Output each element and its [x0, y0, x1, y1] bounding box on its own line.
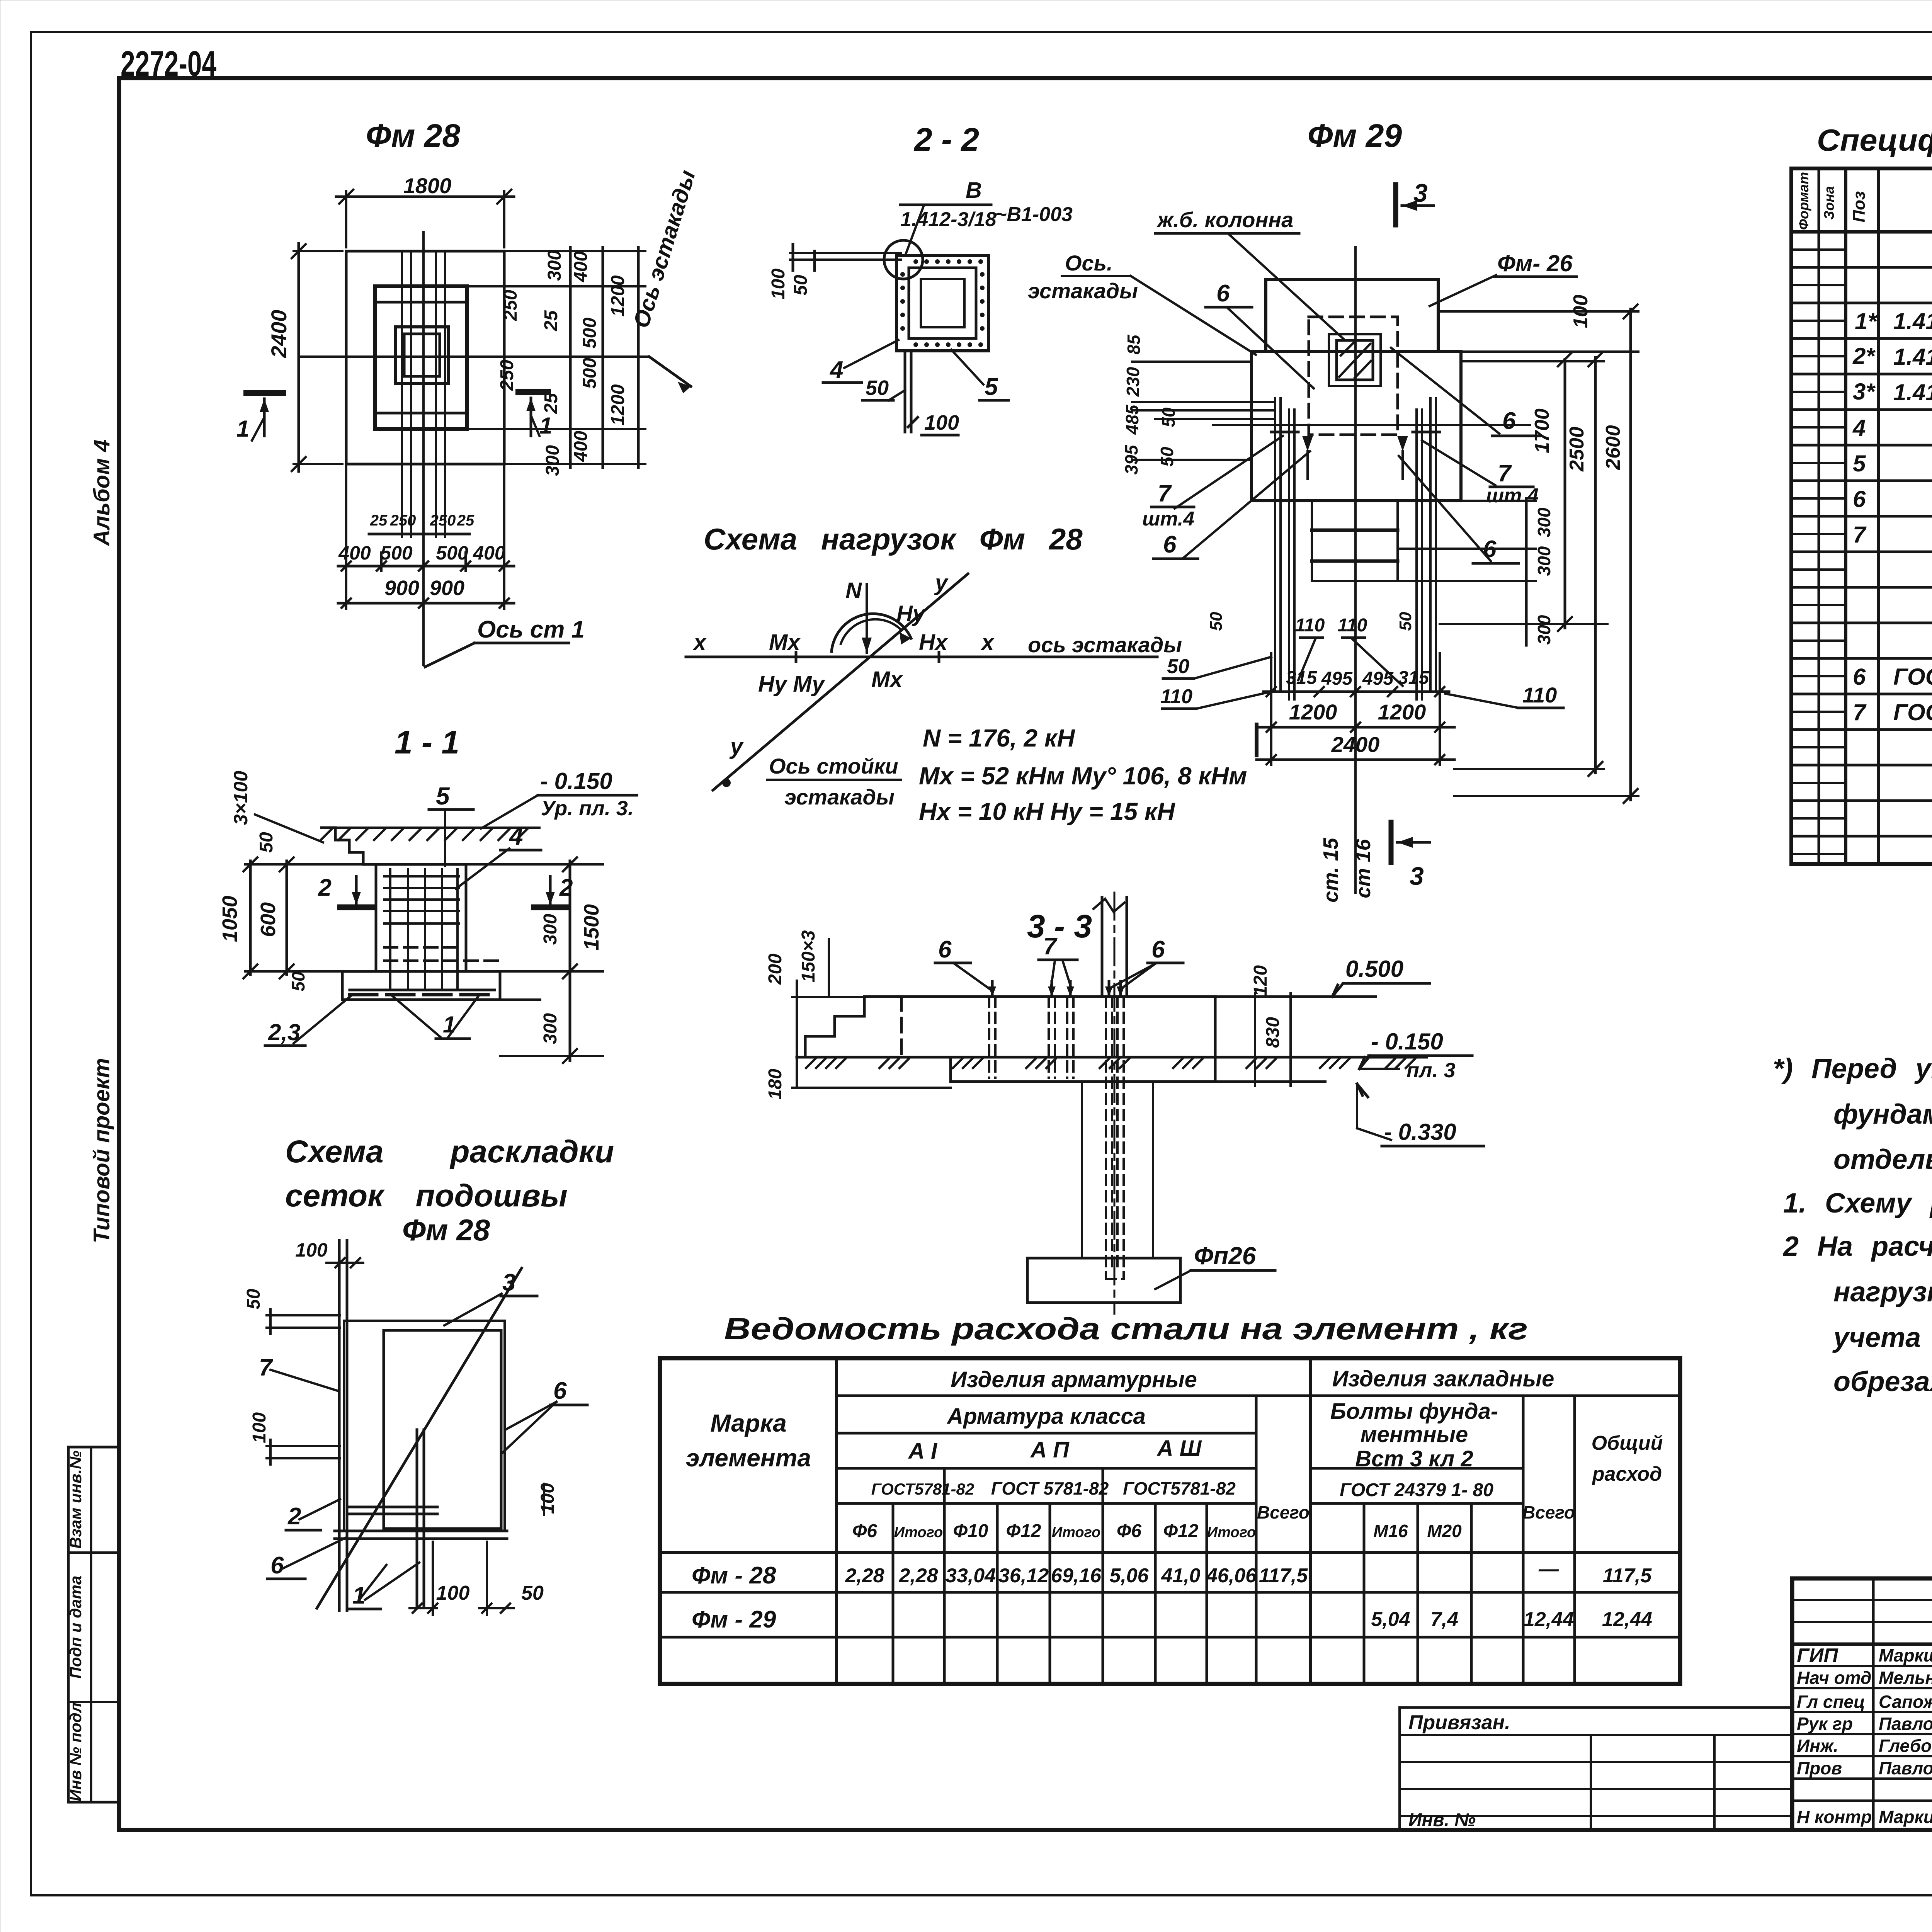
svg-text:Вст 3 кл 2: Вст 3 кл 2 — [1355, 1446, 1473, 1471]
svg-text:6: 6 — [553, 1378, 567, 1404]
svg-text:7: 7 — [1498, 460, 1512, 487]
svg-text:500: 500 — [436, 542, 468, 564]
svg-text:1.410 - 3 В 1: 1.410 - 3 В 1 — [1893, 379, 1932, 405]
svg-text:100: 100 — [768, 269, 789, 299]
svg-text:ГОСТ 5781-82: ГОСТ 5781-82 — [991, 1478, 1109, 1498]
notes text block — [1773, 1053, 1932, 1397]
section 3-3 rebar U dashed — [1106, 1278, 1124, 1280]
mesh layout diagonal — [317, 1268, 522, 1608]
svg-text:*) Перед укладкой сеток поз: *) Перед укладкой сеток поз 1,2,3 в подо… — [1773, 1053, 1932, 1084]
plan Фм 29 anchor square hatched — [1329, 334, 1381, 386]
svg-text:500: 500 — [380, 542, 413, 564]
svg-text:3: 3 — [502, 1269, 515, 1296]
svg-text:Фм 28: Фм 28 — [402, 1213, 490, 1247]
svg-text:300: 300 — [1534, 615, 1554, 645]
svg-text:100: 100 — [1570, 295, 1592, 328]
svg-text:Нх: Нх — [919, 630, 949, 655]
svg-text:N = 176, 2 кН: N = 176, 2 кН — [923, 724, 1075, 752]
svg-text:обрезах: обрезах — [1833, 1366, 1932, 1397]
svg-text:Формат: Формат — [1796, 172, 1811, 230]
svg-text:6: 6 — [1853, 486, 1866, 512]
svg-text:Привязан.: Привязан. — [1408, 1711, 1510, 1734]
svg-text:110: 110 — [1160, 685, 1192, 708]
svg-text:1050: 1050 — [218, 896, 241, 942]
svg-text:Сапожникова: Сапожникова — [1879, 1692, 1932, 1712]
svg-text:Фп26: Фп26 — [1194, 1242, 1256, 1270]
svg-text:0.500: 0.500 — [1345, 956, 1403, 982]
steel table grid — [660, 1358, 1680, 1684]
section 3-3 bolt tops — [992, 981, 1121, 997]
svg-text:1500: 1500 — [580, 904, 603, 951]
svg-text:315: 315 — [1286, 668, 1317, 688]
plan Фм 29 left dim leaders — [1132, 361, 1252, 363]
svg-text:4: 4 — [829, 357, 843, 383]
mesh layout scheme Схема раскладки — [243, 1134, 614, 1615]
svg-text:Ну: Ну — [896, 601, 926, 626]
plan Фм 29 — [1028, 117, 1638, 903]
plan Фм 29 centerlines — [1354, 247, 1357, 893]
svg-text:шт.4: шт.4 — [1142, 508, 1194, 530]
svg-text:М16: М16 — [1373, 1521, 1408, 1541]
svg-text:495: 495 — [1362, 668, 1394, 689]
svg-text:Маркин: Маркин — [1879, 1807, 1932, 1827]
svg-text:50: 50 — [288, 971, 308, 992]
svg-text:расход: расход — [1592, 1463, 1662, 1485]
svg-text:фундамента Фм 28 , приварит: фундамента Фм 28 , приварить по краям се… — [1833, 1099, 1932, 1130]
svg-text:1200: 1200 — [608, 275, 628, 316]
svg-text:1.410 - 3 В.1: 1.410 - 3 В.1 — [1893, 344, 1932, 370]
svg-text:ГОСТ5781-82: ГОСТ5781-82 — [1123, 1478, 1236, 1498]
svg-text:50: 50 — [1396, 612, 1415, 631]
plan Фм 28 section marker 1 right — [519, 389, 548, 395]
mesh layout sheet 3 rect — [344, 1321, 505, 1531]
svg-text:2600: 2600 — [1602, 425, 1624, 470]
plan Фм 28 right dim lines — [569, 247, 572, 468]
svg-text:400: 400 — [338, 542, 371, 564]
svg-text:Марка: Марка — [710, 1409, 787, 1437]
svg-text:400: 400 — [473, 542, 505, 564]
plan Фм 29 dashed pedestal — [1309, 317, 1398, 435]
svg-text:12,44: 12,44 — [1602, 1608, 1652, 1631]
svg-text:50: 50 — [243, 1289, 264, 1310]
svg-text:Ф10: Ф10 — [953, 1521, 988, 1541]
svg-text:85: 85 — [1124, 334, 1144, 355]
svg-text:50: 50 — [1167, 655, 1189, 678]
plan Фм 28 right dim texts — [497, 250, 628, 476]
svg-text:х: х — [692, 630, 707, 655]
svg-text:пл. 3: пл. 3 — [1406, 1059, 1456, 1082]
svg-text:Глебова: Глебова — [1879, 1736, 1932, 1756]
svg-text:500: 500 — [580, 318, 600, 349]
plan Фм 28 — [236, 117, 700, 667]
svg-text:Ось ст 1: Ось ст 1 — [477, 616, 585, 643]
svg-text:500: 500 — [580, 358, 600, 389]
svg-text:250: 250 — [430, 512, 456, 529]
svg-text:Альбом 4: Альбом 4 — [89, 439, 114, 546]
plan Фм 29 main rect — [1252, 352, 1461, 501]
section 1-1 pedestal — [376, 864, 466, 971]
svg-text:100: 100 — [295, 1239, 328, 1261]
svg-text:4: 4 — [1852, 415, 1866, 441]
svg-text:5: 5 — [436, 782, 450, 810]
svg-text:В: В — [966, 178, 982, 203]
svg-text:1: 1 — [539, 413, 552, 439]
svg-text:120: 120 — [1250, 965, 1271, 996]
specification table grid — [1791, 168, 1932, 864]
svg-text:46,06: 46,06 — [1206, 1565, 1257, 1587]
svg-text:ось эстакады: ось эстакады — [1028, 633, 1182, 657]
load scheme N arrow — [866, 584, 868, 653]
svg-text:эстакады: эстакады — [1028, 279, 1138, 303]
svg-text:315: 315 — [1398, 668, 1429, 688]
svg-text:Подп и дата: Подп и дата — [66, 1576, 85, 1679]
svg-text:7: 7 — [259, 1354, 273, 1381]
svg-text:Гл спец: Гл спец — [1797, 1692, 1865, 1712]
svg-text:Нач отд: Нач отд — [1797, 1668, 1871, 1688]
plan Фм 29 column strip below — [1311, 501, 1313, 581]
section 2-2 column lines below plate — [904, 351, 906, 432]
svg-text:Н контр: Н контр — [1797, 1807, 1872, 1827]
svg-text:117,5: 117,5 — [1259, 1565, 1308, 1587]
svg-text:900: 900 — [384, 577, 419, 600]
section 3-3 footing Фп26 — [1027, 1258, 1180, 1303]
svg-text:100: 100 — [249, 1412, 270, 1443]
svg-text:Итого: Итого — [894, 1524, 943, 1541]
svg-text:250: 250 — [390, 512, 416, 529]
svg-text:ГОСТ5781-82: ГОСТ5781-82 — [871, 1480, 974, 1498]
svg-text:6: 6 — [1502, 408, 1516, 434]
plan Фм 28 rebar verticals — [401, 251, 403, 537]
svg-text:Поз: Поз — [1850, 191, 1869, 223]
svg-text:Мх: Мх — [769, 630, 801, 655]
svg-text:200: 200 — [765, 954, 786, 985]
mesh layout sheet inner rect — [384, 1330, 501, 1529]
svg-text:2: 2 — [559, 874, 573, 901]
section 1-1 footing mesh — [350, 989, 495, 992]
svg-text:4: 4 — [509, 822, 523, 850]
svg-text:25: 25 — [541, 393, 561, 414]
svg-text:Ведомость расхода стали: Ведомость расхода стали на элемент , кг — [724, 1311, 1528, 1346]
svg-text:7: 7 — [1853, 699, 1867, 725]
svg-text:2272-04: 2272-04 — [121, 44, 216, 83]
svg-text:3×100: 3×100 — [230, 771, 252, 825]
section 1-1 footing — [342, 971, 500, 1000]
svg-text:5,06: 5,06 — [1109, 1565, 1149, 1587]
svg-text:Павлова: Павлова — [1879, 1714, 1932, 1734]
svg-text:Павлова: Павлова — [1879, 1758, 1932, 1778]
plan Фм 28 pedestal outline — [375, 286, 467, 429]
section 3-3 column above with break — [1101, 897, 1104, 997]
svg-text:Всего: Всего — [1522, 1502, 1575, 1522]
specification table headers — [1796, 172, 1932, 230]
svg-text:110: 110 — [1295, 615, 1325, 636]
svg-text:50: 50 — [1157, 447, 1177, 467]
section 3-3 slab outline — [805, 997, 1215, 1082]
svg-text:2 - 2: 2 - 2 — [913, 121, 979, 158]
svg-text:50: 50 — [521, 1582, 544, 1604]
svg-text:Арматура класса: Арматура класса — [946, 1404, 1146, 1429]
svg-text:2: 2 — [287, 1503, 301, 1530]
svg-text:300: 300 — [1534, 507, 1554, 537]
svg-text:1700: 1700 — [1531, 408, 1553, 453]
svg-text:300: 300 — [544, 250, 565, 281]
svg-text:6: 6 — [938, 936, 952, 963]
section 1-1 section marker 2 right — [534, 905, 568, 910]
svg-text:- 0.330: - 0.330 — [1384, 1119, 1456, 1145]
svg-text:100: 100 — [537, 1483, 558, 1514]
svg-text:Типовой проект: Типовой проект — [89, 1058, 114, 1243]
svg-text:395: 395 — [1121, 444, 1141, 474]
svg-text:5: 5 — [985, 374, 998, 400]
svg-text:1.410-3 В.1: 1.410-3 В.1 — [1893, 308, 1932, 334]
svg-text:117,5: 117,5 — [1603, 1565, 1652, 1587]
svg-text:180: 180 — [765, 1069, 786, 1100]
svg-text:400: 400 — [571, 251, 591, 282]
svg-text:ст 16: ст 16 — [1352, 838, 1375, 898]
svg-text:2: 2 — [318, 874, 332, 901]
svg-text:Изделия арматурные: Изделия арматурные — [951, 1367, 1197, 1392]
svg-text:Рук гр: Рук гр — [1797, 1714, 1853, 1734]
svg-text:Мх = 52 кНм Му° 106, 8 кНм: Мх = 52 кНм Му° 106, 8 кНм — [919, 762, 1247, 790]
svg-text:3*: 3* — [1853, 379, 1876, 405]
svg-text:100: 100 — [924, 411, 959, 434]
svg-text:Ф12: Ф12 — [1006, 1521, 1041, 1541]
svg-text:Ф12: Ф12 — [1163, 1521, 1199, 1541]
svg-text:250: 250 — [500, 290, 521, 321]
svg-text:Ф6: Ф6 — [1117, 1521, 1141, 1541]
svg-text:ГОСТ 24379 1- 80: ГОСТ 24379 1- 80 — [1340, 1480, 1493, 1500]
svg-text:50: 50 — [256, 832, 277, 853]
svg-text:69,16: 69,16 — [1051, 1565, 1102, 1587]
section 2-2 left dims — [790, 252, 901, 254]
svg-text:Мельников: Мельников — [1879, 1668, 1932, 1688]
plan Фм 28 centerlines — [422, 232, 425, 665]
svg-text:900: 900 — [430, 577, 464, 600]
svg-text:25: 25 — [457, 512, 474, 529]
svg-text:6: 6 — [1853, 664, 1866, 690]
svg-text:830: 830 — [1263, 1017, 1283, 1048]
svg-text:25: 25 — [541, 310, 561, 332]
svg-text:7: 7 — [1158, 480, 1172, 507]
svg-text:3: 3 — [1413, 179, 1428, 207]
section 1-1 ground line — [325, 827, 539, 829]
section 1-1 rebar cage — [384, 869, 498, 989]
svg-text:12,44: 12,44 — [1524, 1608, 1574, 1631]
plan Фм 29 section marker 3 bottom — [1389, 822, 1394, 862]
svg-text:Фм- 26: Фм- 26 — [1497, 250, 1573, 276]
svg-text:50: 50 — [866, 376, 889, 400]
svg-text:5,04: 5,04 — [1371, 1608, 1410, 1631]
mesh layout vertical mesh strip — [338, 1240, 341, 1611]
svg-text:300: 300 — [540, 1013, 561, 1044]
svg-text:Ф6: Ф6 — [852, 1521, 877, 1541]
plan Фм 29 section marker 3 top — [1393, 185, 1398, 225]
svg-text:у: у — [729, 734, 744, 759]
svg-text:Ось стойки: Ось стойки — [769, 754, 898, 778]
svg-text:ментные: ментные — [1361, 1422, 1468, 1447]
plan Фм 29 right dims — [1461, 350, 1638, 353]
load scheme Схема нагрузок Фм 28 — [686, 522, 1247, 825]
svg-text:Инв. №: Инв. № — [1408, 1810, 1476, 1830]
svg-text:эстакады: эстакады — [784, 785, 895, 809]
svg-text:50: 50 — [1158, 407, 1179, 427]
svg-text:Итого: Итого — [1207, 1524, 1256, 1541]
svg-text:ГОСТ 24379.1- 80: ГОСТ 24379.1- 80 — [1893, 664, 1932, 690]
svg-text:- 0.150: - 0.150 — [540, 768, 612, 794]
svg-text:110: 110 — [1522, 683, 1557, 707]
svg-text:485: 485 — [1122, 404, 1142, 435]
svg-text:—: — — [1538, 1558, 1559, 1580]
section 3-3 column below — [1081, 1082, 1083, 1258]
svg-text:Общий: Общий — [1592, 1432, 1663, 1454]
plan Фм 28 section marker 1 left — [247, 390, 283, 396]
svg-text:Фм 28: Фм 28 — [366, 117, 461, 154]
svg-text:М20: М20 — [1427, 1521, 1462, 1541]
svg-text:Зона: Зона — [1821, 186, 1837, 220]
plan Фм 28 axis arrow right — [649, 357, 691, 386]
svg-text:250: 250 — [497, 360, 517, 391]
svg-text:Ур. пл. 3.: Ур. пл. 3. — [541, 797, 634, 820]
section 3-3 centerline — [1114, 893, 1116, 1314]
section 2-2 — [768, 121, 1073, 435]
title block signature rows — [1797, 1645, 1932, 1827]
svg-text:7,4: 7,4 — [1430, 1608, 1458, 1631]
svg-text:Пров: Пров — [1797, 1758, 1842, 1778]
plan Фм 29 anchor bolt lines right — [1415, 410, 1418, 699]
svg-text:Изделия закладные: Изделия закладные — [1332, 1366, 1554, 1391]
svg-text:Инж.: Инж. — [1797, 1736, 1838, 1756]
svg-text:2 На расчетной схеме указа: 2 На расчетной схеме указана нормативная — [1782, 1231, 1932, 1262]
svg-text:50: 50 — [1207, 612, 1226, 631]
svg-text:5: 5 — [1853, 451, 1866, 476]
svg-text:7: 7 — [1853, 522, 1867, 548]
svg-text:1200: 1200 — [608, 384, 628, 425]
svg-text:6: 6 — [270, 1552, 284, 1579]
svg-text:Фм 29: Фм 29 — [1308, 117, 1402, 154]
svg-text:110: 110 — [1338, 615, 1367, 636]
svg-text:25: 25 — [370, 512, 388, 529]
section 1-1 left dims — [249, 861, 252, 975]
load scheme strut axis diagonal — [713, 574, 968, 790]
svg-text:Схема нагрузок Фм 28: Схема нагрузок Фм 28 — [704, 522, 1083, 556]
svg-text:2400: 2400 — [1331, 732, 1380, 757]
svg-text:А I: А I — [908, 1439, 938, 1464]
plan Фм 29 bolt cross marks — [1271, 431, 1298, 434]
svg-text:Фм - 28: Фм - 28 — [692, 1562, 776, 1589]
svg-text:Фм - 29: Фм - 29 — [692, 1606, 776, 1633]
mesh layout horizontal mesh strip — [335, 1530, 507, 1532]
svg-text:элемента: элемента — [686, 1444, 811, 1472]
svg-text:ж.б. колонна: ж.б. колонна — [1156, 207, 1293, 232]
section 2-2 detail circle — [884, 240, 923, 279]
svg-text:1200: 1200 — [1378, 700, 1426, 724]
svg-text:3: 3 — [1410, 862, 1424, 890]
svg-text:400: 400 — [571, 431, 591, 462]
svg-text:Спецификация фундамента Фм: Спецификация фундамента Фм 28 , Фм 29 — [1817, 123, 1932, 157]
svg-text:300: 300 — [543, 445, 563, 476]
svg-text:А Ш: А Ш — [1156, 1436, 1202, 1461]
specification narrow-column midlines — [1791, 250, 1846, 854]
svg-text:50: 50 — [791, 275, 811, 296]
svg-text:ст. 15: ст. 15 — [1319, 837, 1342, 902]
plan Фм 28 bottom dim texts — [370, 512, 474, 529]
svg-text:2,28: 2,28 — [845, 1565, 884, 1587]
svg-text:36,12: 36,12 — [998, 1565, 1049, 1587]
svg-text:Взам инв.№: Взам инв.№ — [66, 1451, 85, 1549]
plan Фм 29 anchor bolt lines left — [1274, 398, 1276, 692]
svg-text:300: 300 — [540, 914, 561, 945]
привязан table left of title block — [1400, 1708, 1792, 1830]
svg-text:495: 495 — [1321, 668, 1353, 689]
svg-text:41,0: 41,0 — [1161, 1565, 1200, 1587]
svg-text:300: 300 — [1534, 546, 1554, 576]
svg-text:1800: 1800 — [403, 173, 452, 198]
svg-text:600: 600 — [257, 902, 280, 937]
svg-text:- 0.150: - 0.150 — [1371, 1029, 1443, 1054]
load scheme tick arrows on axis — [795, 652, 798, 662]
steel table data — [692, 1558, 1652, 1633]
svg-text:А П: А П — [1030, 1437, 1070, 1463]
section 3-3 ground line — [797, 1056, 1427, 1059]
section 1-1 right dims — [569, 861, 571, 1061]
svg-text:1. Схему расположения фундам: 1. Схему расположения фундаментов см лис… — [1783, 1188, 1932, 1219]
plan Фм 28 anchor square — [395, 327, 448, 383]
mesh layout mid vertical pair — [416, 1430, 418, 1605]
section 2-2 anchor plate — [896, 255, 988, 351]
svg-text:отдельные стержни поз 6,7: отдельные стержни поз 6,7 — [1833, 1144, 1932, 1175]
steel table headers — [686, 1366, 1663, 1541]
load scheme labels — [692, 570, 995, 759]
svg-text:ГОСТ 24379.1 - 80: ГОСТ 24379.1 - 80 — [1893, 699, 1932, 725]
svg-text:1: 1 — [236, 416, 249, 442]
svg-text:33,04: 33,04 — [946, 1565, 996, 1587]
TITLE BLOCK — [1792, 1578, 1932, 1830]
svg-text:150×3: 150×3 — [798, 930, 819, 982]
svg-text:Всего: Всего — [1257, 1502, 1310, 1522]
section 1-1 left steps — [321, 828, 376, 864]
svg-text:N: N — [845, 578, 862, 603]
plan Фм 28 footing outline — [346, 251, 504, 464]
svg-text:1: 1 — [443, 1012, 456, 1037]
svg-text:Схема раскладки: Схема раскладки — [285, 1134, 614, 1169]
svg-text:230: 230 — [1123, 367, 1143, 397]
svg-text:7: 7 — [1043, 933, 1058, 960]
svg-text:Болты фунда-: Болты фунда- — [1330, 1399, 1498, 1424]
svg-text:3 - 3: 3 - 3 — [1027, 908, 1092, 944]
svg-text:100: 100 — [436, 1582, 470, 1604]
load scheme x axis — [686, 656, 1157, 658]
svg-text:х: х — [980, 630, 995, 655]
left margin signature strip — [68, 1447, 119, 1802]
svg-text:ГИП: ГИП — [1797, 1645, 1838, 1667]
svg-text:Итого: Итого — [1052, 1524, 1100, 1541]
specification table content — [1852, 237, 1932, 833]
svg-text:нагрузка на уровне верха: нагрузка на уровне верха фундамента , бе… — [1833, 1277, 1932, 1308]
svg-text:6: 6 — [1151, 936, 1165, 963]
svg-text:учета собственного веса: учета собственного веса и веса грунта на — [1832, 1322, 1932, 1353]
svg-text:Нх = 10 кН Ну = 15 кН: Нх = 10 кН Ну = 15 кН — [919, 798, 1175, 825]
svg-text:Ну Му: Ну Му — [758, 672, 825, 697]
svg-text:Мх: Мх — [871, 667, 903, 692]
svg-text:6: 6 — [1216, 280, 1230, 307]
svg-text:Маркштедер: Маркштедер — [1879, 1645, 1932, 1665]
svg-text:2500: 2500 — [1566, 427, 1588, 472]
svg-text:Инв № подл: Инв № подл — [66, 1702, 85, 1801]
section 3-3 — [765, 893, 1484, 1314]
svg-text:1*: 1* — [1855, 308, 1878, 334]
section 2-2 plate opening — [921, 279, 964, 327]
svg-text:Ось.: Ось. — [1065, 251, 1113, 275]
